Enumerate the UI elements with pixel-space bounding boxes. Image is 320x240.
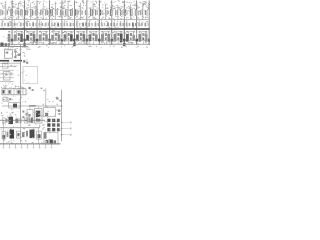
IC U1 <box>8 29 17 47</box>
relay K11 <box>50 8 55 19</box>
relay K8 <box>35 7 39 18</box>
diode D1 <box>3 97 20 101</box>
wire bottom rail 2 <box>0 127 40 129</box>
relay K9 <box>40 9 45 19</box>
resistor R15 <box>88 20 92 28</box>
relay K6 <box>25 8 31 19</box>
relay K30 <box>145 8 150 18</box>
value labels left haze <box>1 48 28 103</box>
wire vertical feeders top <box>6 0 149 29</box>
transformer T1 <box>4 46 12 58</box>
relay K28 <box>135 7 140 19</box>
relay K35 <box>17 131 21 138</box>
resistor R6 <box>32 22 36 29</box>
value labels bottom rows <box>1 112 44 117</box>
DIP module U25 <box>47 119 59 132</box>
resistor R14 <box>82 22 87 29</box>
IC U21 <box>9 103 21 108</box>
capacitor C11 <box>141 32 146 45</box>
relay K37 <box>37 131 42 139</box>
wire stub right 3 <box>61 134 72 136</box>
IC U23 <box>35 106 43 123</box>
capacitor C2 <box>29 32 34 45</box>
value labels left column <box>1 85 24 88</box>
relay K1 <box>0 8 5 19</box>
IC U8 <box>95 29 104 48</box>
IC U12 <box>145 29 154 48</box>
resistor R1 <box>1 20 5 29</box>
relay K13 <box>60 7 66 17</box>
relay K20 <box>95 9 100 20</box>
IC U4 <box>45 29 54 48</box>
relay K3 <box>10 7 15 18</box>
IC U22 <box>27 106 33 122</box>
resistor R31 <box>15 118 21 124</box>
wire bus left stub <box>0 45 28 47</box>
ground ticks below bus <box>3 144 53 148</box>
connector J1 outline <box>23 67 38 84</box>
relay K2 <box>5 7 11 19</box>
value labels bottom mid <box>1 125 46 131</box>
relay K26 <box>125 7 130 18</box>
IC U3 <box>32 29 41 48</box>
capacitor C10 <box>129 32 134 45</box>
wire stub right 1 <box>61 121 72 123</box>
capacitor C1 <box>17 32 22 45</box>
resistor R11 <box>64 20 68 29</box>
resistor R32 <box>24 118 30 123</box>
wire stub right 2 <box>61 127 72 129</box>
relay K34 <box>10 130 15 139</box>
relay K7 <box>30 7 36 19</box>
relay K33 <box>2 131 6 139</box>
wire ladder rungs <box>0 66 14 81</box>
resistor R35 <box>7 132 9 137</box>
wire bus 2 <box>0 28 150 30</box>
value labels left band <box>5 47 31 50</box>
value labels above connector <box>32 42 41 45</box>
relay K12 <box>55 9 61 17</box>
relay K10 <box>45 8 50 19</box>
relay K19 <box>90 8 95 19</box>
wire bottom rail 1 <box>0 119 45 121</box>
wire node bus mid <box>2 105 62 107</box>
relay K14 <box>65 7 70 19</box>
wire vertical right spine <box>61 90 63 141</box>
resistor R17 <box>101 20 108 29</box>
value labels row A haze <box>5 9 147 18</box>
value labels row C haze <box>3 32 150 43</box>
resistor R34 <box>44 133 47 139</box>
relay K23 <box>110 8 115 19</box>
resistor R21 <box>126 20 130 28</box>
relay K32 <box>9 117 14 124</box>
relay K5 <box>20 7 25 19</box>
wire left spine vertical <box>20 44 22 120</box>
wire bus 4 <box>0 143 61 145</box>
resistor R22 <box>132 22 138 28</box>
resistor R23 <box>138 20 143 29</box>
IC U7 <box>83 29 92 47</box>
resistor R24 <box>144 21 150 29</box>
capacitor C9 <box>116 32 121 45</box>
IC U9 <box>107 29 116 47</box>
value labels row B haze <box>2 21 141 29</box>
wire vertical mid <box>45 88 47 106</box>
value labels top margin <box>1 0 151 9</box>
relay K16 <box>75 9 80 19</box>
fuse F1 <box>2 64 16 68</box>
relay K40 enclosure <box>44 132 58 144</box>
relay K15 <box>70 8 76 18</box>
terminal marks right of spine <box>22 110 30 118</box>
value labels above mid line <box>43 97 62 105</box>
resistor R4 <box>20 21 25 28</box>
terminal block X1 <box>14 49 25 59</box>
resistor R36 <box>26 131 28 137</box>
IC U11 <box>132 29 141 48</box>
node marks upper right block <box>56 97 61 101</box>
resistor R9 <box>51 20 57 28</box>
capacitor C3 <box>42 32 47 45</box>
IC U6 <box>70 29 79 48</box>
resistor R8 <box>45 22 51 28</box>
ground cluster left <box>0 43 9 47</box>
relay K22 <box>105 8 111 19</box>
relay K17 <box>80 7 84 18</box>
relay K27 <box>130 8 135 19</box>
value labels row C <box>1 42 149 45</box>
resistor R5 <box>26 20 32 28</box>
relay K18 <box>85 8 91 18</box>
IC U2 <box>20 29 29 48</box>
resistor R16 <box>95 20 99 28</box>
resistor R2 <box>7 21 12 27</box>
wire dark segment pair <box>0 60 28 64</box>
value labels bottom haze <box>1 109 61 144</box>
relay K21 <box>100 7 105 18</box>
IC U10 <box>120 29 129 48</box>
relay K25 <box>120 9 124 19</box>
value labels bottom lower <box>4 140 47 144</box>
wire bus 1 <box>0 19 150 21</box>
switch S1 <box>2 70 20 85</box>
capacitor C12 <box>154 32 159 45</box>
relay K4 <box>15 8 19 19</box>
resistor R19 <box>113 20 118 28</box>
resistor R7 <box>39 20 43 28</box>
capacitor C7 <box>91 32 96 45</box>
resistor R18 <box>107 22 111 28</box>
IC U5 <box>57 29 66 47</box>
relay K24 <box>115 7 120 17</box>
node marks above register <box>28 87 44 91</box>
resistor R13 <box>76 20 81 28</box>
resistor R20 <box>120 21 126 29</box>
capacitor C4 <box>54 32 59 45</box>
IC U24 <box>44 106 61 117</box>
resistor R12 <box>70 21 74 29</box>
wire vertical drops bottom <box>4 120 39 144</box>
resistor R33 <box>22 132 25 137</box>
capacitor C31 <box>31 118 33 123</box>
relay K31 <box>2 118 7 123</box>
capacitor C6 <box>79 32 84 45</box>
relay K29 <box>140 9 144 18</box>
relay K36 <box>30 130 35 139</box>
resistor R3 <box>14 20 20 28</box>
register bank U20 <box>2 87 26 95</box>
capacitor C5 <box>66 32 71 45</box>
wire bus 3 <box>0 43 150 45</box>
capacitor C8 <box>104 32 109 45</box>
resistor R10 <box>57 22 62 29</box>
